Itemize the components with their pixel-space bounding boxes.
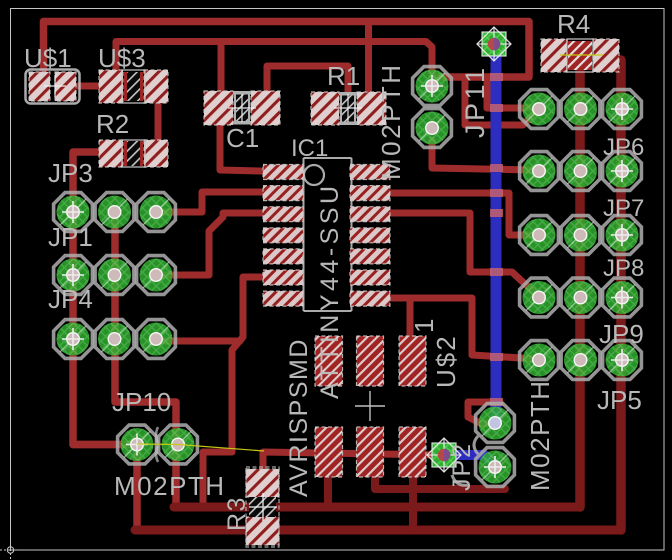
connector JP1/JP3/JP4 header pads [54, 193, 93, 232]
pad U$3.2 [144, 70, 168, 103]
svg-text:M02PTH: M02PTH [114, 471, 226, 501]
svg-text:M02PTH: M02PTH [376, 62, 406, 180]
connector JP2 M02PTH pads [476, 404, 515, 443]
airwire JP10 to R3 [137, 444, 264, 451]
label ATTINY44-SSU [316, 182, 344, 399]
wire U$1 drop [40, 22, 48, 81]
wire rail2 net2 [116, 42, 432, 77]
connector M02PTH top pads [413, 67, 452, 106]
wire IC1 pin6 down [203, 277, 263, 503]
wire JP10p2 down [172, 445, 180, 505]
wire right col2 vertical [575, 58, 585, 507]
ic IC1 pads [263, 165, 303, 180]
label JP11 [460, 64, 490, 138]
wire C1 left drop [218, 42, 225, 93]
wire M02PTH pad2 out [432, 140, 537, 170]
wire R1 right pad drop [365, 22, 372, 96]
wire U$2 pin1 drop [407, 298, 414, 338]
airwire R4 [560, 54, 603, 56]
wire U$1-U$3 link [75, 83, 101, 90]
svg-text:JP1: JP1 [48, 222, 93, 252]
wire IC1 pin7 to JP9 [390, 298, 538, 359]
label M02PTH bottom-left [114, 471, 226, 501]
label C1 [226, 123, 259, 153]
wire JP1 col2 [115, 212, 176, 440]
label JP10 [112, 387, 171, 417]
trace-over-blue blends [490, 73, 503, 406]
svg-text:R4: R4 [557, 9, 590, 39]
connector U$2 AVRISPSMD pads [315, 336, 343, 386]
label JP9 [599, 319, 644, 349]
svg-text:IC1: IC1 [291, 135, 328, 162]
pad R2.2 [144, 140, 168, 167]
wire JP10p1 up-feed [73, 441, 136, 449]
label U$3 [98, 43, 146, 73]
silkscreen M02PTH-BR outline [452, 436, 478, 485]
label JP3 [48, 158, 93, 188]
pad R3.2 [246, 517, 279, 545]
svg-text:JP10: JP10 [112, 387, 171, 417]
wire JP1r2p3 to IC1 [157, 213, 261, 275]
via JP11 [477, 27, 511, 61]
pad R1.2 [357, 92, 386, 125]
svg-text:JP6: JP6 [603, 134, 644, 161]
via JP2 [427, 438, 461, 472]
origin cross R1 [334, 94, 362, 122]
label JP7 [603, 195, 644, 222]
label U$1 [24, 43, 72, 73]
svg-text:JP2: JP2 [448, 442, 476, 491]
svg-text:JP11: JP11 [460, 64, 490, 138]
ic IC1 pin1 mark [304, 165, 324, 185]
wire bottom layer via to JP2 pad2 [446, 455, 495, 464]
pad U$1.2 [55, 72, 76, 101]
label JP2 [448, 442, 476, 491]
label JP1 [48, 222, 93, 252]
origin cross U$1 [44, 75, 66, 97]
origin cross C1 [228, 94, 256, 122]
wire JP4r3p3 [157, 338, 240, 345]
svg-text:C1: C1 [226, 123, 259, 153]
component R2 body [122, 140, 145, 167]
label M02PTH vertical top [376, 62, 406, 180]
label AVRISPSMD [285, 338, 313, 497]
wire JP3 feed [73, 152, 115, 445]
pad C1.1 [204, 91, 233, 125]
wire bottom H2 [174, 503, 580, 512]
svg-text:AVRISPSMD: AVRISPSMD [285, 338, 313, 497]
svg-text:JP8: JP8 [603, 255, 644, 282]
origin cross R3 [249, 493, 277, 521]
wire R3 to via [263, 452, 443, 472]
origin marker (0,0) [0, 537, 23, 560]
svg-text:R3: R3 [223, 496, 251, 531]
label R1 [327, 61, 360, 91]
origin cross U$2 [355, 391, 385, 421]
pad R4.1 [541, 39, 567, 72]
label R3 [223, 496, 251, 531]
silkscreen JP10 outline [156, 427, 158, 462]
connector JP10 pads [118, 425, 157, 464]
svg-text:JP7: JP7 [603, 195, 644, 222]
component R1 body [339, 92, 357, 125]
svg-text:M02PTH: M02PTH [525, 379, 555, 491]
wire IC1 to JP8 F4 [390, 213, 538, 296]
wire bottom layer JP11 via to JP2 pad1 [491, 40, 502, 419]
wire JP2 pad1 feed [468, 402, 500, 424]
svg-text:R2: R2 [96, 109, 129, 139]
ic IC1 body [304, 158, 352, 311]
svg-text:JP5: JP5 [597, 385, 642, 415]
svg-text:ATTINY44-SSU: ATTINY44-SSU [316, 182, 344, 399]
wire via feed F1 [487, 77, 539, 108]
wire IC1 to JP7 F3 [390, 193, 538, 235]
pad U$1.1 [29, 72, 50, 101]
svg-text:JP9: JP9 [599, 319, 644, 349]
wire JP1r1p3 to IC1 [157, 192, 261, 212]
label JP8 [603, 255, 644, 282]
connector JP5-JP9 header pads [520, 90, 559, 129]
svg-text:JP3: JP3 [48, 158, 93, 188]
component C1 body [233, 91, 251, 125]
wire ISP col1 drop [324, 472, 332, 504]
svg-text:U$3: U$3 [98, 43, 146, 73]
label JP4 [48, 284, 93, 314]
component U$1 outline [26, 70, 80, 104]
wire JP10p1 down [133, 445, 141, 527]
label U$2 pin1 [409, 317, 439, 333]
pad U$3.1 [99, 70, 123, 103]
label IC1 [291, 135, 328, 162]
pad R1.1 [311, 92, 339, 125]
label R4 [557, 9, 590, 39]
wire C1 to IC1 pin1 [220, 124, 261, 171]
pad R3.1 [246, 469, 279, 497]
component U$3 body [122, 70, 145, 103]
svg-text:1: 1 [409, 317, 439, 333]
pad R4.2 [593, 39, 619, 72]
label JP6 [603, 134, 644, 161]
svg-text:R1: R1 [327, 61, 360, 91]
pad R2.1 [99, 140, 123, 167]
label R2 [96, 109, 129, 139]
wire ISP col3 drop [409, 474, 417, 527]
component R3 body [246, 467, 279, 547]
label JP5 [597, 385, 642, 415]
label M02PTH bottom-right [525, 379, 555, 491]
svg-text:U$2: U$2 [431, 334, 461, 388]
wire U$3-R2 link [155, 96, 162, 146]
svg-text:U$1: U$1 [24, 43, 72, 73]
wire F1b jog [465, 77, 537, 125]
label U$2 [431, 334, 461, 388]
wire top rail net1 [44, 22, 530, 78]
wire bottom H3 [135, 526, 621, 535]
component R4 body [567, 39, 593, 72]
wire C1 right to R1 [267, 66, 348, 104]
pad C1.2 [251, 91, 280, 125]
wire bottom H1 [375, 474, 505, 489]
wire right col3 vertical [616, 60, 626, 530]
svg-text:JP4: JP4 [48, 284, 93, 314]
